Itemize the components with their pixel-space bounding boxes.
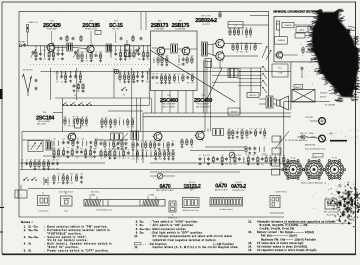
FM IF amplifier box outline [151, 31, 198, 91]
wire [151, 98, 153, 113]
svg-text:AM & FM DET & AGC: AM & FM DET & AGC [156, 189, 174, 192]
svg-text:0.04: 0.04 [259, 128, 262, 130]
jack connecting wires [306, 137, 319, 138]
svg-text:0.01: 0.01 [238, 155, 241, 157]
svg-text:S8a~S8d :: S8a~S8d : [140, 228, 152, 231]
svg-text:R12: R12 [71, 148, 74, 150]
wire [62, 98, 64, 132]
svg-text:100: 100 [150, 150, 153, 152]
wires inside IF box [152, 47, 157, 49]
svg-text:560: 560 [119, 72, 122, 74]
svg-text:10: 10 [237, 198, 239, 200]
svg-text:4.7k: 4.7k [56, 159, 59, 161]
svg-text:R7: R7 [67, 148, 69, 150]
box corner line near 2SC184 [53, 112, 63, 114]
earphone jack [319, 135, 326, 142]
svg-text:C21: C21 [79, 72, 82, 74]
svg-text:Oscillator Socket: Oscillator Socket [219, 208, 233, 211]
svg-text:E C B: E C B [332, 158, 337, 160]
AFC switch S2 [122, 87, 128, 91]
svg-text:4.7k: 4.7k [62, 183, 65, 185]
svg-text:0.01: 0.01 [136, 159, 139, 161]
driver transformer T2 [202, 42, 208, 56]
svg-text:R12: R12 [100, 139, 103, 141]
svg-text:C4: C4 [57, 59, 59, 61]
svg-text:0.02: 0.02 [80, 173, 83, 175]
FM tuning capacitor C1-2 with arrow [74, 51, 77, 55]
svg-text:0.04: 0.04 [269, 155, 272, 157]
svg-text:R24: R24 [110, 50, 113, 52]
TR2 emitter network cluster [77, 52, 79, 60]
svg-text:L5 (FM): L5 (FM) [148, 195, 154, 197]
main schematic box outline [19, 11, 284, 217]
svg-text:33k: 33k [141, 159, 144, 161]
svg-text:4.7k: 4.7k [89, 157, 92, 159]
speaker SP [277, 96, 289, 110]
svg-text:560: 560 [191, 55, 194, 57]
svg-text:FM: kHz—————— 2[mV]: FM: kHz—————— 2[mV] [261, 235, 297, 238]
svg-text:0.04: 0.04 [247, 164, 250, 166]
svg-text:TO CAR ANT: TO CAR ANT [325, 104, 337, 107]
svg-text:TR4: TR4 [43, 112, 47, 114]
control labels box [272, 64, 288, 77]
svg-text:C21: C21 [156, 83, 159, 85]
battery holder box [247, 93, 259, 98]
svg-text:FM : 76 ~ 90Mc: FM : 76 ~ 90Mc [300, 133, 314, 135]
svg-text:11: 11 [240, 198, 242, 200]
wire [76, 68, 78, 100]
transistor TR5 AM IF circle [153, 131, 163, 141]
svg-text:Power source switch in "OFF" p: Power source switch in "OFF" position. [47, 249, 109, 252]
svg-text:47: 47 [182, 55, 184, 57]
interstage coil L1 [67, 43, 73, 51]
svg-text:C21: C21 [171, 140, 174, 142]
svg-text:TR3: TR3 [114, 20, 118, 22]
ext antenna jack box [325, 199, 337, 209]
large ink blot top right [312, 12, 357, 97]
small box above TR2 [95, 31, 101, 35]
svg-text:R3: R3 [72, 116, 74, 118]
earphone jack bottom-left pin diagram [15, 190, 27, 198]
registration mark left border mid [0, 89, 3, 99]
svg-text:4.7k: 4.7k [241, 128, 244, 130]
svg-text:BA-30: BA-30 [300, 29, 305, 32]
svg-text:R7: R7 [246, 27, 248, 29]
transistor TR4 AM converter circle [67, 132, 76, 142]
svg-text:I.B. Rod Aerial Coil: I.B. Rod Aerial Coil [96, 209, 112, 212]
speaker socket pin diagram [270, 196, 280, 208]
svg-text:E C B: E C B [312, 158, 317, 160]
nested section wire y113 [143, 112, 291, 114]
oscillator network cluster [110, 46, 112, 53]
pilot lamp symbol [301, 135, 305, 139]
svg-text:100: 100 [136, 150, 139, 152]
svg-text:33k: 33k [187, 83, 190, 85]
antenna bar lead wires [89, 197, 91, 200]
svg-text:47: 47 [261, 155, 263, 157]
output transistor TR8 2SB324 [214, 38, 224, 49]
svg-text:R12: R12 [178, 65, 181, 67]
svg-text:2k: 2k [100, 61, 102, 63]
loudspeaker socket diagram [38, 196, 50, 206]
svg-text:Plug: Plug [64, 211, 68, 213]
upper side components row B [120, 37, 123, 41]
svg-text:220: 220 [57, 183, 60, 185]
ferrite bar segment lines [102, 200, 104, 207]
svg-text:Multi-connector socket.: Multi-connector socket. [153, 228, 187, 231]
output transistor TR9 2SB324 [214, 51, 224, 62]
wire TR1 collector to L1 [54, 47, 66, 49]
svg-text:12.: 12. [248, 220, 252, 223]
svg-text:15k: 15k [228, 128, 231, 130]
thermistor dashed box [228, 22, 243, 29]
svg-text:TR5: TR5 [167, 95, 171, 97]
electrolytic capacitor C30 [205, 59, 212, 68]
wire [204, 60, 206, 132]
svg-text:C9: C9 [250, 37, 252, 39]
svg-text:2k: 2k [119, 82, 121, 84]
transistor TR4 FM IF first [156, 46, 165, 56]
FM oscillator coil [106, 44, 112, 52]
svg-text:6.8k: 6.8k [56, 72, 59, 74]
svg-text:S7a: S7a [140, 224, 144, 227]
svg-text:6.8k: 6.8k [132, 72, 135, 74]
row3 diagonal wire [104, 133, 128, 158]
svg-text:FM ANT: FM ANT [19, 41, 26, 44]
svg-text:R19: R19 [80, 148, 83, 150]
wire [50, 68, 52, 100]
svg-text:11.: 11. [134, 246, 138, 249]
vertical wire right detector [283, 102, 285, 170]
svg-text:68k: 68k [233, 27, 236, 29]
svg-text:R24: R24 [256, 164, 259, 166]
svg-text:220: 220 [133, 50, 136, 52]
svg-text:C21: C21 [70, 183, 73, 185]
svg-text:C21: C21 [247, 155, 250, 157]
svg-text:6.8k: 6.8k [81, 138, 84, 140]
svg-text:R12: R12 [199, 164, 202, 166]
svg-text:47: 47 [114, 127, 116, 129]
svg-text:2.: 2. [24, 229, 26, 232]
ferrite rod winding L5 [143, 200, 159, 206]
svg-text:R7: R7 [81, 116, 83, 118]
detector lower wire [20, 169, 290, 171]
svg-text:13.: 13. [248, 242, 252, 245]
svg-text:S6a: S6a [140, 221, 144, 224]
tone switch box S5 [228, 69, 238, 78]
svg-text:4.7k: 4.7k [233, 155, 236, 157]
dash mark below speaker socket [270, 212, 284, 214]
wire [250, 68, 252, 93]
junction dots row1 [50, 45, 51, 46]
svg-text:FM 2nd IF AMP: FM 2nd IF AMP [162, 103, 176, 106]
AM IF transformer T4 [111, 133, 124, 140]
svg-text:C7: C7 [236, 128, 238, 130]
svg-text:TR6: TR6 [201, 95, 205, 97]
svg-text:220: 220 [237, 27, 240, 29]
wire [142, 113, 144, 163]
svg-text:C9: C9 [86, 61, 88, 63]
wire [113, 68, 115, 98]
dial lamp cluster [101, 118, 103, 126]
svg-text:2k: 2k [65, 82, 67, 84]
svg-text:10.: 10. [134, 235, 138, 238]
svg-text:100: 100 [145, 140, 148, 142]
supply bus wire row2 [41, 71, 291, 73]
svg-text:15k: 15k [105, 127, 108, 129]
svg-text:68k: 68k [56, 169, 59, 171]
detector diode 0A70 circle [157, 173, 163, 179]
svg-text:Capital letters (A, K, M,P,C1,: Capital letters (A, K, M,P,C1,2 in the c… [153, 246, 238, 249]
svg-text:R24: R24 [159, 159, 162, 161]
ratio det diode circle D4 [229, 152, 235, 158]
row2 mid horizontal wires [63, 105, 149, 107]
svg-text:15k: 15k [72, 138, 75, 140]
svg-text:0.01: 0.01 [47, 159, 50, 161]
svg-text:0.01: 0.01 [158, 150, 161, 152]
wire [140, 98, 142, 132]
svg-text:0.02: 0.02 [123, 72, 126, 74]
svg-text:B=±10%, M=±20%, P=±100%,: B=±10%, M=±20%, P=±100%, — 0% [260, 224, 309, 227]
svg-text:DC Voltage measurements are ta: DC Voltage measurements are taken with c… [153, 235, 233, 238]
car bracket diode and capacitor [302, 46, 304, 54]
svg-text:R19: R19 [132, 159, 135, 161]
svg-text:R7: R7 [77, 116, 79, 118]
svg-text:2nd AF AMP: 2nd AF AMP [175, 27, 186, 30]
svg-text:C21: C21 [136, 140, 139, 142]
svg-text:6.: 6. [136, 221, 138, 224]
svg-text:4.7k: 4.7k [241, 27, 244, 29]
svg-text:R3: R3 [77, 138, 79, 140]
svg-text:2k: 2k [100, 149, 102, 151]
balance potentiometer arrow [263, 80, 268, 86]
TR1 base bias network cluster [35, 46, 37, 53]
wires around diode [150, 175, 157, 177]
svg-text:33k: 33k [245, 37, 248, 39]
wire [260, 68, 262, 96]
svg-text:2k: 2k [143, 50, 145, 52]
svg-text:6.8k: 6.8k [154, 159, 157, 161]
svg-text:AM 1st IF AMP: AM 1st IF AMP [163, 105, 176, 108]
svg-text:E C B: E C B [291, 158, 296, 160]
svg-text:0.01: 0.01 [53, 138, 56, 140]
left bottom wires [20, 162, 105, 164]
svg-text:1k: 1k [163, 140, 165, 142]
transistor base diagram 1 bottom view [282, 160, 305, 180]
svg-text:L4 (AM): L4 (AM) [89, 194, 96, 197]
svg-text:FM RF AMP: FM RF AMP [47, 28, 58, 31]
svg-text:100: 100 [76, 157, 79, 159]
svg-text:S1: S1 [74, 95, 76, 97]
ceramic filter SC-15 body [125, 45, 130, 57]
AM IF transformer T5 [131, 131, 139, 140]
svg-text:IF : FM 10.7Mc AM 455kc: IF : FM 10.7Mc AM 455kc [285, 139, 308, 142]
svg-text:C4: C4 [137, 72, 139, 74]
svg-text:0.04: 0.04 [131, 117, 134, 119]
svg-text:D3: D3 [220, 182, 222, 184]
svg-text:33k: 33k [43, 50, 46, 52]
right edge component boxes [272, 136, 281, 142]
ferrite rod winding L4 [85, 200, 100, 206]
wires driver to output pair [208, 44, 216, 45]
detector mid cluster [181, 138, 183, 146]
telescopic antenna symbol [22, 74, 31, 96]
volume potentiometer arrow [263, 66, 268, 72]
svg-text:S5: S5 [28, 249, 31, 252]
wires ladder to control arrows [212, 67, 262, 69]
svg-text:R24: R24 [93, 148, 96, 150]
AF test jack J1 [114, 69, 118, 73]
svg-text:R19: R19 [53, 148, 56, 150]
svg-text:R7: R7 [132, 140, 134, 142]
detector strip component cluster [199, 157, 202, 161]
svg-text:8.: 8. [136, 228, 138, 231]
right edge vertical wire [279, 136, 281, 175]
svg-text:OSC 455kc: OSC 455kc [90, 192, 99, 194]
wire label to TR2 [90, 31, 92, 45]
thick reference dash [330, 140, 347, 142]
svg-text:R7: R7 [86, 116, 88, 118]
svg-text:3Ω SPK PM-9: 3Ω SPK PM-9 [275, 192, 286, 194]
svg-text:S6: S6 [172, 215, 174, 217]
svg-text:15k: 15k [57, 173, 60, 175]
svg-text:6.8k: 6.8k [68, 126, 71, 128]
svg-text:R19: R19 [90, 61, 93, 63]
svg-text:R19: R19 [152, 73, 155, 75]
male socket plug diagram [183, 198, 200, 208]
diagonal pointer wire [275, 131, 289, 149]
svg-text:CHANGE: CHANGE [277, 39, 285, 42]
svg-text:A-Male Socket Plug: A-Male Socket Plug [183, 209, 199, 212]
IF box component cluster row 1 [153, 58, 155, 64]
wire output to controls [231, 43, 262, 45]
switch group bottom left [24, 177, 29, 180]
transistor TR1 2SC429 [46, 42, 55, 52]
svg-text:R12: R12 [64, 72, 67, 74]
svg-text:C4: C4 [147, 50, 149, 52]
middle connector box [228, 108, 240, 115]
wire label to osc [115, 31, 117, 43]
svg-text:FM 1st IF AMP: FM 1st IF AMP [38, 120, 51, 123]
svg-text:C7: C7 [155, 150, 157, 152]
svg-text:C21: C21 [225, 164, 228, 166]
row2 component cluster C [119, 72, 121, 76]
transistor TR5 FM IF second [181, 46, 190, 56]
svg-text:47: 47 [127, 158, 129, 160]
svg-text:15k: 15k [61, 59, 64, 61]
wire label to TR1 [51, 31, 53, 44]
long diagonal wire to detector [150, 50, 235, 102]
registration dash left edge lower [0, 231, 3, 233]
battery box BA-30 [296, 27, 308, 33]
svg-text:R24: R24 [207, 155, 210, 157]
svg-text:R3: R3 [109, 158, 111, 160]
svg-text:1st AF AMP: 1st AF AMP [154, 27, 165, 30]
small box above rosettes [313, 154, 323, 158]
svg-text:C7: C7 [53, 50, 55, 52]
wire [136, 98, 138, 163]
svg-text:100: 100 [90, 51, 93, 53]
nested section wire y117 [143, 116, 291, 118]
svg-text:C21: C21 [43, 59, 46, 61]
svg-text:560: 560 [245, 52, 248, 54]
AM IF strip top wire [22, 131, 205, 133]
svg-text:S9a: S9a [140, 232, 144, 235]
svg-text:R7: R7 [264, 128, 266, 130]
wire thermistor to car bracket section [243, 24, 269, 26]
svg-text:EARPHONE: EARPHONE [305, 144, 316, 147]
svg-text:5.: 5. [24, 249, 26, 252]
svg-text:47: 47 [199, 155, 201, 157]
row2 component cluster A [56, 72, 58, 76]
svg-text:0.01: 0.01 [263, 138, 266, 140]
svg-text:R24: R24 [127, 72, 130, 74]
svg-text:D1 & D2: D1 & D2 [189, 182, 196, 184]
svg-text:R3: R3 [141, 150, 143, 152]
svg-text:Base Diagram (Bottom): Base Diagram (Bottom) [301, 181, 323, 184]
svg-text:FM 3rd IF AMP: FM 3rd IF AMP [197, 103, 210, 106]
car bracket section box [274, 16, 322, 62]
svg-text:C9: C9 [100, 158, 102, 160]
regulator box [295, 33, 305, 38]
svg-text:TR2: TR2 [89, 20, 93, 22]
svg-text:15k: 15k [229, 164, 232, 166]
vertical feed wire right section [290, 62, 292, 110]
safety resistor box [294, 85, 303, 90]
AGC bus wire [150, 162, 290, 164]
svg-text:10k: 10k [85, 148, 88, 150]
svg-text:S2a~S2c: S2a~S2c [28, 229, 38, 232]
row3 wires [22, 139, 50, 141]
svg-text:1k: 1k [81, 183, 83, 185]
wire pair top to bus A [140, 12, 142, 30]
svg-text:R3: R3 [165, 73, 167, 75]
wire pair top to bus B [145, 12, 147, 30]
svg-text:PH-14SV: PH-14SV [306, 117, 314, 119]
wire TR8 TR9 base link [212, 44, 214, 56]
wire row1 to car bracket [250, 15, 269, 17]
svg-text:R7: R7 [141, 140, 143, 142]
wire [219, 60, 221, 68]
battery symbol [43, 177, 45, 185]
svg-text:2k: 2k [119, 117, 121, 119]
svg-text:TONE: TONE [278, 73, 284, 75]
svg-text:Notes :: Notes : [21, 220, 33, 224]
svg-text:2: 2 [215, 198, 216, 200]
vertical bus triple wires [203, 60, 205, 113]
gray fringe speckle left of blot [300, 40, 329, 85]
main signal bus wire top row [22, 45, 151, 47]
row3 component cluster left [53, 141, 55, 147]
ratio detector cluster lower [245, 145, 247, 153]
svg-text:2k: 2k [275, 155, 277, 157]
phase selector X box [292, 90, 315, 103]
svg-text:R12: R12 [207, 164, 210, 166]
svg-text:Battery current : No Signal—: Battery current : No Signal———— 23[mA] [257, 231, 314, 234]
row2 component cluster B [73, 84, 76, 88]
svg-text:AFC switch in "ON" position.: AFC switch in "ON" position. [153, 224, 195, 227]
row3 component cluster right [132, 141, 134, 149]
wire L1 to TR2 [73, 48, 87, 49]
svg-text:R24: R24 [81, 51, 84, 53]
svg-text:R12: R12 [70, 173, 73, 175]
svg-text:R7: R7 [157, 65, 159, 67]
svg-text:2k: 2k [250, 27, 252, 29]
svg-text:S4: S4 [42, 193, 44, 195]
transistor TR2 2SC185 mixer [85, 44, 94, 54]
svg-text:Tone switch in "HIGH" position: Tone switch in "HIGH" position. [153, 221, 199, 224]
antenna coupling capacitors [35, 79, 38, 83]
